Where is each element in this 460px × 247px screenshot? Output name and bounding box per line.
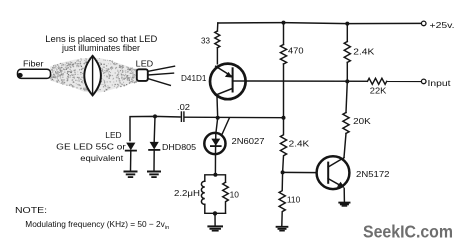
svg-text:.02: .02 xyxy=(177,102,190,112)
svg-text:SeekIC.com: SeekIC.com xyxy=(363,222,453,242)
svg-text:+25v.: +25v. xyxy=(430,20,455,30)
svg-text:GE LED 55C or: GE LED 55C or xyxy=(56,142,126,152)
svg-text:2.4K: 2.4K xyxy=(353,47,374,57)
svg-text:LED: LED xyxy=(105,130,121,140)
svg-text:Modulating frequency (KHz) = 5: Modulating frequency (KHz) = 50 − 2v xyxy=(25,219,165,229)
svg-text:110: 110 xyxy=(287,194,301,204)
svg-text:2N6027: 2N6027 xyxy=(232,136,265,146)
svg-text:2.4K: 2.4K xyxy=(289,139,310,149)
svg-text:D41D1: D41D1 xyxy=(181,73,207,83)
svg-text:NOTE:: NOTE: xyxy=(15,205,47,215)
svg-text:equivalent: equivalent xyxy=(80,153,124,163)
svg-text:33: 33 xyxy=(201,36,210,46)
svg-text:22K: 22K xyxy=(370,86,387,96)
svg-text:DHD805: DHD805 xyxy=(162,142,196,152)
svg-text:470: 470 xyxy=(288,45,304,55)
svg-text:2N5172: 2N5172 xyxy=(356,169,390,179)
svg-text:2.2μH: 2.2μH xyxy=(174,188,200,198)
svg-text:Fiber: Fiber xyxy=(23,59,44,69)
svg-text:just illuminates fiber: just illuminates fiber xyxy=(61,43,140,53)
svg-text:20K: 20K xyxy=(353,116,371,126)
svg-text:Input: Input xyxy=(428,78,452,88)
svg-text:LED: LED xyxy=(136,58,154,68)
svg-text:in: in xyxy=(165,225,170,231)
svg-text:10: 10 xyxy=(230,189,240,199)
